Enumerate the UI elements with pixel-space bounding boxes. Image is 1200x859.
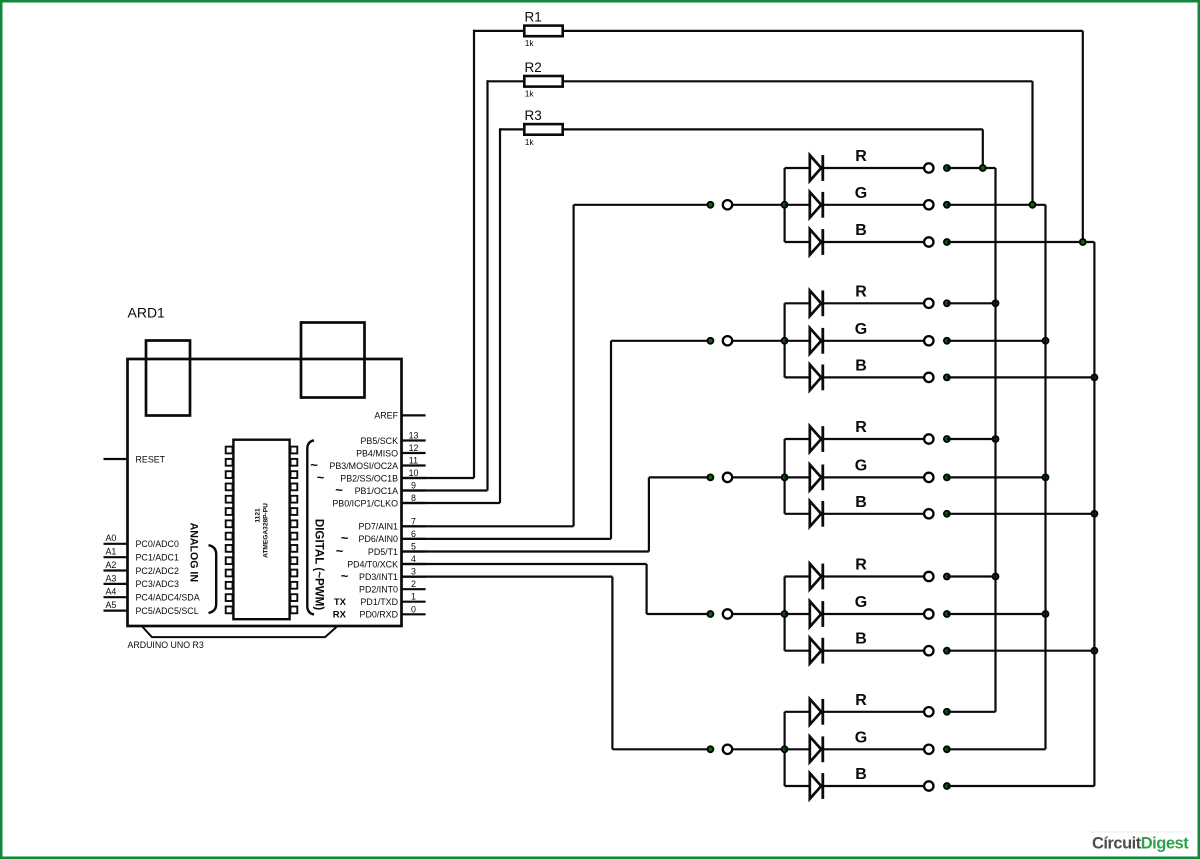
LED D9 (B of group 3)	[785, 494, 1099, 527]
svg-text:8: 8	[411, 493, 416, 503]
svg-text:B: B	[855, 766, 867, 783]
pin 5 PD5/T1	[336, 542, 426, 559]
pin 10 PB2/SS/OC1B	[317, 468, 426, 485]
svg-text:PB2/SS/OC1B: PB2/SS/OC1B	[340, 473, 398, 483]
node G wire endpoint group 2	[943, 337, 951, 345]
svg-text:AREF: AREF	[374, 411, 398, 421]
node G wire endpoint group 5	[943, 745, 951, 753]
pin 3 PD3/INT1	[341, 567, 426, 584]
svg-text:PB5/SCK: PB5/SCK	[361, 436, 399, 446]
svg-text:R: R	[855, 692, 867, 709]
wire pin to R1	[402, 477, 475, 479]
pin 1 PD1/TXD	[334, 592, 426, 608]
wire LED D11 to terminal	[823, 613, 924, 615]
board bottom notch outline	[142, 626, 338, 637]
wire LED D2 to terminal	[823, 204, 924, 206]
LED D15 (B of group 5)	[785, 766, 1095, 799]
wire junction to LED D4	[785, 302, 810, 304]
wire junction to LED D5	[785, 340, 810, 342]
svg-text:PB4/MISO: PB4/MISO	[356, 448, 398, 458]
junction G bus group 3	[1042, 474, 1050, 482]
node group 2 feed endpoint	[707, 337, 715, 345]
wire to B bus group 5	[947, 785, 1095, 787]
wire junction to LED D8	[785, 476, 810, 478]
wire junction to LED D13	[785, 711, 810, 713]
terminal B cathode group 4	[924, 646, 933, 655]
svg-text:2: 2	[411, 579, 416, 589]
wire to G bus group 5	[947, 748, 1046, 750]
svg-text:A1: A1	[106, 547, 117, 557]
svg-text:PC3/ADC3: PC3/ADC3	[136, 579, 179, 589]
svg-text:G: G	[855, 594, 867, 611]
node group 1 feed endpoint	[707, 201, 715, 209]
wire junction to LED D14	[785, 748, 810, 750]
node R wire endpoint group 3	[943, 435, 951, 443]
wire junction to LED D15	[785, 785, 810, 787]
RGB LED group 3	[402, 419, 1099, 552]
svg-text:RESET: RESET	[136, 454, 166, 464]
svg-text:B: B	[855, 357, 867, 374]
wire common vertical group 4	[783, 577, 785, 651]
wire to B bus group 3	[947, 513, 1095, 515]
svg-text:~: ~	[335, 482, 343, 497]
wire to G bus group 4	[947, 613, 1046, 615]
svg-text:PB0/ICP1/CLKO: PB0/ICP1/CLKO	[332, 498, 398, 508]
wire to R bus group 3	[947, 438, 996, 440]
svg-text:PC1/ADC1: PC1/ADC1	[136, 553, 179, 563]
LED D6 (B of group 2)	[785, 357, 1099, 390]
wire common vertical group 2	[783, 303, 785, 377]
junction group 3 common	[781, 474, 789, 482]
wire pin to R2	[402, 489, 488, 491]
resistor R1 1k	[402, 9, 1083, 478]
wire common vertical group 3	[783, 439, 785, 514]
svg-text:11: 11	[409, 456, 418, 466]
LED D11 symbol	[810, 601, 821, 627]
LED D14 symbol	[810, 737, 821, 763]
wire pin 3 to group 5 common	[402, 575, 613, 577]
pin 2 PD2/INT0	[359, 579, 426, 594]
svg-text:5: 5	[411, 542, 416, 552]
terminal group 3 common anode	[723, 473, 732, 482]
resistor R1 body	[524, 26, 562, 37]
wire common vertical group 1	[783, 168, 785, 242]
svg-text:12: 12	[409, 443, 419, 453]
svg-text:CírcuitDigest: CírcuitDigest	[1092, 835, 1189, 853]
wire common terminal to junction group 3	[732, 476, 784, 478]
svg-text:A3: A3	[106, 573, 117, 583]
terminal G cathode group 2	[924, 336, 933, 345]
wire B bus vertical	[1093, 242, 1095, 786]
pin 8 PB0/ICP1/CLKO	[332, 493, 425, 508]
terminal B cathode group 3	[924, 509, 933, 518]
wire LED D10 to terminal	[823, 575, 924, 577]
svg-text:~: ~	[341, 568, 349, 583]
resistor R3 1k	[402, 108, 983, 503]
svg-text:R: R	[855, 283, 867, 300]
pin A1 PC1/ADC1	[104, 547, 179, 563]
svg-text:A0: A0	[106, 533, 117, 543]
wire to B bus group 2	[947, 376, 1095, 378]
LED D12 (B of group 4)	[785, 631, 1099, 664]
LED D12 symbol	[810, 638, 821, 664]
svg-text:13: 13	[409, 431, 419, 441]
junction R bus group 3	[992, 435, 1000, 443]
wire to G bus group 2	[947, 340, 1046, 342]
terminal R cathode group 5	[924, 707, 933, 716]
svg-text:G: G	[855, 321, 867, 338]
wire LED D6 to terminal	[823, 376, 924, 378]
junction G bus group 4	[1042, 610, 1050, 618]
terminal R cathode group 2	[924, 299, 933, 308]
LED D13 symbol	[810, 699, 821, 725]
pin RESET	[104, 454, 166, 464]
terminal G cathode group 1	[924, 200, 933, 209]
svg-text:R3: R3	[525, 108, 542, 123]
wire common terminal to junction group 1	[732, 204, 784, 206]
svg-text:R: R	[855, 148, 867, 165]
wire LED D15 to terminal	[823, 785, 924, 787]
LED D10 symbol	[810, 564, 821, 590]
terminal G cathode group 4	[924, 609, 933, 618]
terminal G cathode group 5	[924, 745, 933, 754]
svg-text:R1: R1	[525, 9, 542, 24]
svg-text:PD3/INT1: PD3/INT1	[359, 572, 398, 582]
wire junction to LED D9	[785, 513, 810, 515]
junction B bus group 4	[1091, 647, 1099, 655]
svg-text:B: B	[855, 631, 867, 648]
node R wire endpoint group 1	[943, 164, 951, 172]
node B wire endpoint group 1	[943, 238, 951, 246]
LED D11 (G of group 4)	[785, 594, 1050, 627]
wire junction to LED D1	[785, 167, 810, 169]
terminal R cathode group 3	[924, 434, 933, 443]
wire LED D13 to terminal	[823, 711, 924, 713]
wire LED D12 to terminal	[823, 650, 924, 652]
LED D4 (R of group 2)	[785, 283, 1000, 316]
pin AREF	[374, 411, 425, 421]
svg-text:TX: TX	[334, 597, 347, 608]
svg-text:3: 3	[411, 567, 416, 577]
svg-text:B: B	[855, 222, 867, 239]
svg-text:1k: 1k	[525, 137, 535, 147]
LED D8 symbol	[810, 465, 821, 491]
junction G bus group 2	[1042, 337, 1050, 345]
wire R2 to LED bus	[563, 80, 1033, 82]
RGB LED group 5	[402, 577, 1095, 799]
terminal R cathode group 1	[924, 163, 933, 172]
DIGITAL bracket	[307, 440, 314, 614]
resistor R3 body	[524, 124, 562, 135]
wire R bus vertical	[994, 168, 996, 712]
svg-text:PD1/TXD: PD1/TXD	[361, 597, 398, 607]
wire pin 7 to group 1 common	[402, 525, 574, 527]
svg-text:PC5/ADC5/SCL: PC5/ADC5/SCL	[136, 606, 199, 616]
svg-text:A4: A4	[106, 587, 117, 597]
svg-text:PB3/MOSI/OC2A: PB3/MOSI/OC2A	[329, 461, 398, 471]
svg-text:~: ~	[317, 470, 325, 485]
junction R2 to G row	[1029, 201, 1037, 209]
svg-text:0: 0	[411, 604, 416, 614]
LED D15 symbol	[810, 773, 821, 799]
svg-text:ARDUINO UNO R3: ARDUINO UNO R3	[128, 640, 204, 650]
wire to R bus group 5	[947, 711, 996, 713]
terminal group 5 common anode	[723, 745, 732, 754]
label DIGITAL (~PWM)	[313, 519, 326, 610]
node B wire endpoint group 4	[943, 647, 951, 655]
wire LED D3 to terminal	[823, 241, 924, 243]
CircuitDigest logo	[1092, 835, 1189, 853]
svg-text:6: 6	[411, 529, 416, 539]
wire common terminal to junction group 4	[732, 613, 784, 615]
pin 4 PD4/T0/XCK	[347, 554, 425, 569]
pin A5 PC5/ADC5/SCL	[104, 600, 199, 616]
node B wire endpoint group 2	[943, 374, 951, 382]
svg-text:G: G	[855, 185, 867, 202]
node R wire endpoint group 4	[943, 573, 951, 581]
svg-text:10: 10	[409, 468, 419, 478]
svg-text:B: B	[855, 494, 867, 511]
svg-text:G: G	[855, 729, 867, 746]
LED D7 symbol	[810, 426, 821, 452]
node R wire endpoint group 5	[943, 708, 951, 716]
node G wire endpoint group 4	[943, 610, 951, 618]
pin 6 PD6/AIN0	[341, 529, 426, 546]
junction group 4 common	[781, 610, 789, 618]
wire R3 to LED bus	[563, 128, 983, 130]
wire R1 to LED bus	[563, 30, 1083, 32]
LED D1 symbol	[810, 155, 821, 181]
junction B bus group 2	[1091, 374, 1099, 382]
node group 4 feed endpoint	[707, 610, 715, 618]
svg-text:G: G	[855, 457, 867, 474]
svg-text:PD4/T0/XCK: PD4/T0/XCK	[347, 559, 398, 569]
svg-text:R2: R2	[525, 60, 542, 75]
wire LED D5 to terminal	[823, 340, 924, 342]
svg-text:PD0/RXD: PD0/RXD	[360, 610, 398, 620]
terminal group 2 common anode	[723, 336, 732, 345]
power jack tab	[301, 323, 365, 398]
junction group 2 common	[781, 337, 789, 345]
svg-text:A5: A5	[106, 600, 117, 610]
wire to G bus group 3	[947, 476, 1046, 478]
RGB LED group 1	[402, 148, 1095, 526]
svg-text:ANALOG IN: ANALOG IN	[188, 523, 200, 582]
svg-text:ATMEGA328P-PU: ATMEGA328P-PU	[263, 503, 270, 558]
svg-text:9: 9	[411, 481, 416, 491]
wire common terminal to junction group 2	[732, 340, 784, 342]
Arduino board ARD1	[104, 304, 426, 650]
pin 12 PB4/MISO	[356, 443, 426, 458]
wire to G bus group 1	[947, 204, 1046, 206]
junction group 1 common	[781, 201, 789, 209]
svg-text:R: R	[855, 419, 867, 436]
svg-text:PD7/AIN1: PD7/AIN1	[359, 522, 399, 532]
svg-text:RX: RX	[333, 610, 347, 621]
wire LED D4 to terminal	[823, 302, 924, 304]
svg-text:1: 1	[411, 592, 416, 602]
pin 11 PB3/MOSI/OC2A	[310, 456, 425, 473]
wire pin 5 to group 3 common	[402, 550, 649, 552]
LED D5 (G of group 2)	[785, 321, 1050, 354]
wire junction to LED D2	[785, 204, 810, 206]
wire to R bus group 4	[947, 575, 996, 577]
junction R3 to R row	[979, 164, 987, 172]
LED D3 symbol	[810, 229, 821, 255]
pin A3 PC3/ADC3	[104, 573, 179, 589]
wire common vertical group 5	[783, 712, 785, 786]
node group 5 feed endpoint	[707, 745, 715, 753]
logo separator line	[1090, 831, 1191, 833]
pin A4 PC4/ADC4/SDA	[104, 587, 200, 603]
node group 3 feed endpoint	[707, 474, 715, 482]
svg-text:A2: A2	[106, 560, 117, 570]
svg-text:1k: 1k	[525, 38, 535, 48]
terminal group 4 common anode	[723, 609, 732, 618]
junction R bus group 2	[992, 299, 1000, 307]
LED D3 (B of group 1)	[785, 222, 1095, 255]
wire pin 4 to group 4 common	[402, 563, 647, 565]
wire to B bus group 4	[947, 650, 1095, 652]
wire LED D7 to terminal	[823, 438, 924, 440]
svg-text:PD6/AIN0: PD6/AIN0	[359, 534, 399, 544]
wire LED D9 to terminal	[823, 513, 924, 515]
terminal B cathode group 2	[924, 373, 933, 382]
svg-text:PD5/T1: PD5/T1	[368, 547, 398, 557]
junction group 5 common	[781, 745, 789, 753]
svg-text:PC0/ADC0: PC0/ADC0	[136, 539, 179, 549]
wire junction to LED D7	[785, 438, 810, 440]
svg-text:~: ~	[336, 543, 344, 558]
label ANALOG IN	[188, 523, 200, 582]
wire junction to LED D10	[785, 575, 810, 577]
LED D9 symbol	[810, 501, 821, 527]
wire to B bus group 1	[947, 241, 1095, 243]
svg-text:PB1/OC1A: PB1/OC1A	[355, 486, 398, 496]
RGB LED group 2	[402, 283, 1099, 539]
svg-text:R: R	[855, 557, 867, 574]
LED D2 (G of group 1)	[785, 185, 1046, 218]
wire LED D1 to terminal	[823, 167, 924, 169]
wire to R bus group 2	[947, 302, 996, 304]
svg-text:PC4/ADC4/SDA: PC4/ADC4/SDA	[136, 593, 200, 603]
node R wire endpoint group 2	[943, 299, 951, 307]
label 1121 / ATMEGA328P-PU	[255, 503, 270, 558]
wire common terminal to junction group 5	[732, 748, 784, 750]
junction R1 to B row	[1079, 238, 1087, 246]
wire LED D8 to terminal	[823, 476, 924, 478]
wire junction to LED D6	[785, 376, 810, 378]
LED D13 (R of group 5)	[785, 692, 996, 725]
node G wire endpoint group 3	[943, 474, 951, 482]
wire junction to LED D3	[785, 241, 810, 243]
LED D1 (R of group 1)	[785, 148, 996, 181]
junction B bus group 3	[1091, 510, 1099, 518]
wire junction to LED D12	[785, 650, 810, 652]
node G wire endpoint group 1	[943, 201, 951, 209]
pin A2 PC2/ADC2	[104, 560, 179, 576]
wire to R bus group 1	[947, 167, 996, 169]
terminal G cathode group 3	[924, 473, 933, 482]
pin 7 PD7/AIN1	[359, 516, 426, 531]
IC ATMEGA328P-PU	[226, 440, 298, 620]
terminal R cathode group 4	[924, 572, 933, 581]
svg-text:4: 4	[411, 554, 416, 564]
resistor R2 1k	[402, 60, 1033, 491]
RGB LED group 4	[402, 557, 1099, 664]
LED D2 symbol	[810, 192, 821, 218]
pin 13 PB5/SCK	[361, 431, 426, 446]
terminal group 1 common anode	[723, 200, 732, 209]
LED D7 (R of group 3)	[785, 419, 1000, 452]
wire junction to LED D11	[785, 613, 810, 615]
LED D8 (G of group 3)	[785, 457, 1050, 490]
wire pin to R3	[402, 502, 501, 504]
pin A0 PC0/ADC0	[104, 533, 179, 549]
LED D5 symbol	[810, 328, 821, 354]
wire LED D14 to terminal	[823, 748, 924, 750]
terminal B cathode group 5	[924, 781, 933, 790]
wire G bus vertical	[1044, 205, 1046, 750]
LED D14 (G of group 5)	[785, 729, 1046, 762]
svg-text:1121: 1121	[255, 508, 262, 523]
Arduino body outline	[128, 359, 402, 626]
LED D4 symbol	[810, 291, 821, 317]
node B wire endpoint group 5	[943, 782, 951, 790]
node B wire endpoint group 3	[943, 510, 951, 518]
svg-text:1k: 1k	[525, 88, 535, 98]
resistor R2 body	[524, 76, 562, 87]
junction R bus group 4	[992, 573, 1000, 581]
terminal B cathode group 1	[924, 237, 933, 246]
svg-text:7: 7	[411, 516, 416, 526]
svg-text:PC2/ADC2: PC2/ADC2	[136, 566, 179, 576]
svg-text:PD2/INT0: PD2/INT0	[359, 585, 398, 595]
pin 0 PD0/RXD	[333, 604, 426, 620]
wire pin 6 to group 2 common	[402, 538, 612, 540]
LED D6 symbol	[810, 365, 821, 391]
pin 9 PB1/OC1A	[335, 481, 425, 498]
svg-text:ARD1: ARD1	[128, 304, 166, 320]
USB connector tab	[146, 341, 190, 416]
LED D10 (R of group 4)	[785, 557, 1000, 590]
svg-text:DIGITAL (~PWM): DIGITAL (~PWM)	[313, 519, 326, 610]
ANALOG IN bracket	[209, 545, 217, 613]
